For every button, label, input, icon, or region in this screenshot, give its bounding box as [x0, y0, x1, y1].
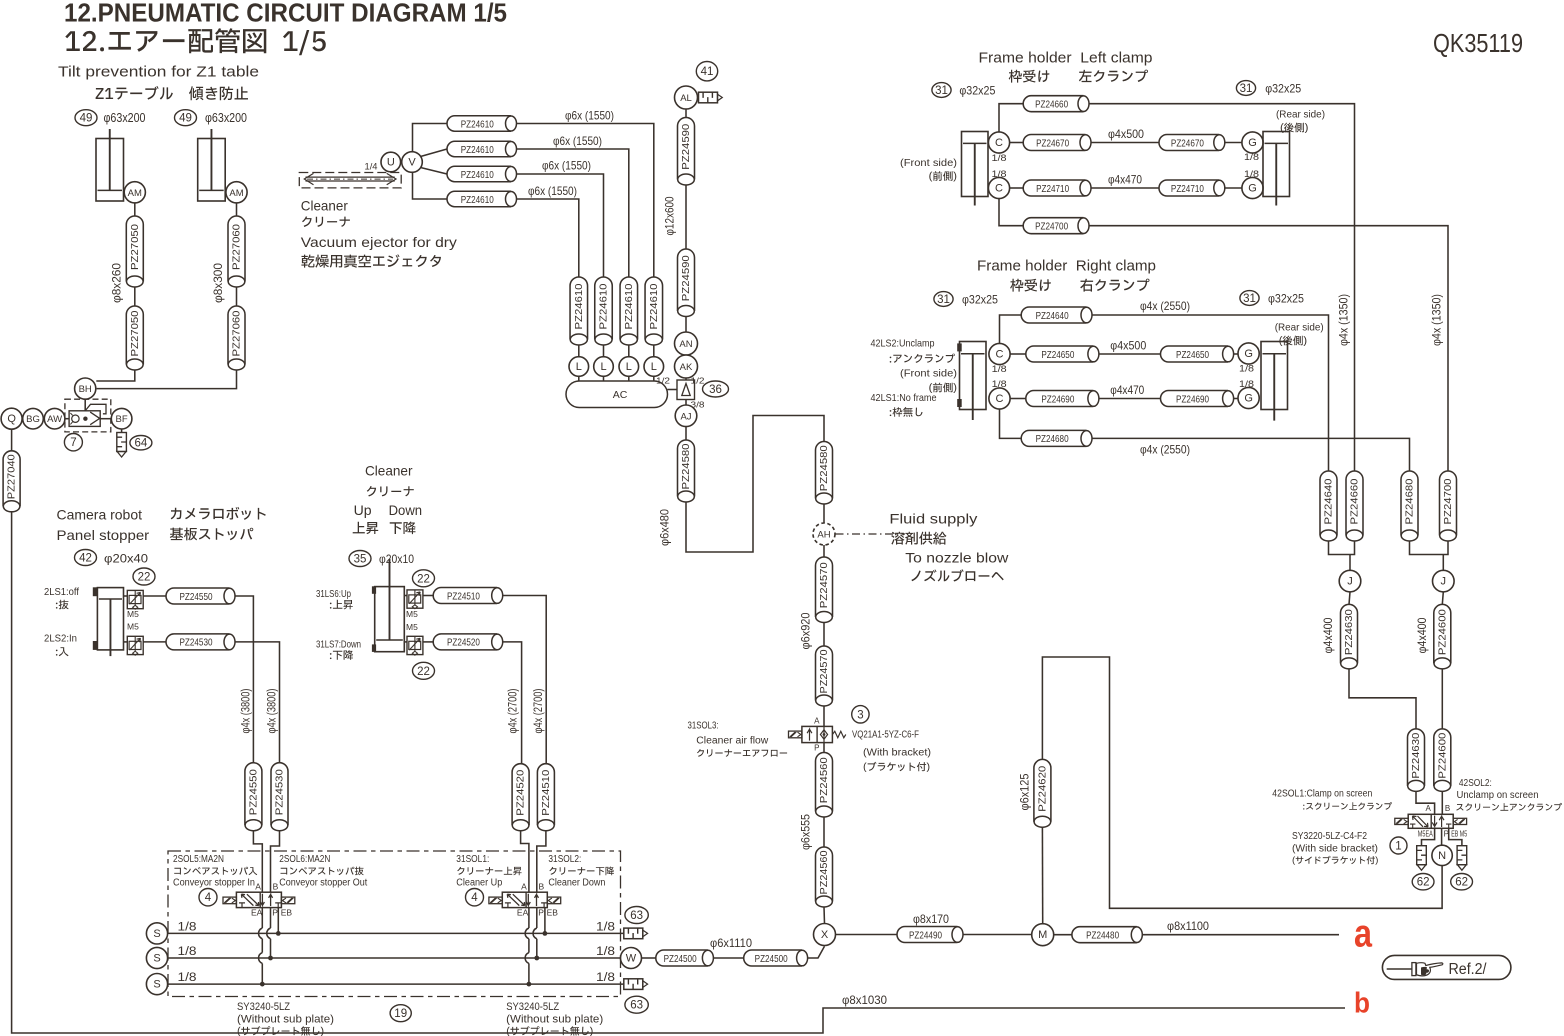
svg-text:PZ24610: PZ24610 [598, 283, 610, 329]
svg-text:AH: AH [817, 530, 830, 541]
svg-text:EA: EA [251, 908, 263, 918]
svg-text:31SOL3:: 31SOL3: [688, 721, 719, 732]
pipe PZ24710 second [1159, 180, 1225, 196]
balloon 3 [852, 706, 869, 723]
silencer 63 top [624, 928, 648, 939]
wire AM to PZ27050 [134, 203, 136, 216]
pipe PZ24610 h1 [447, 116, 517, 132]
pipe PZ24690 first [1026, 391, 1099, 407]
balloon 41 [696, 61, 717, 80]
wire J2 to PZ24600, dia 4x400 [1442, 592, 1443, 605]
svg-text:M5: M5 [406, 609, 418, 619]
wire PZ24600 down [1441, 669, 1443, 729]
svg-text:PZ24610: PZ24610 [461, 194, 494, 206]
svg-text:35: 35 [354, 554, 367, 566]
svg-text:1/8: 1/8 [178, 972, 197, 984]
node AN [675, 332, 698, 355]
pipe PZ24680 horizontal [1021, 430, 1092, 446]
pipe PZ24560 upper [816, 753, 833, 818]
svg-text:1/8: 1/8 [992, 379, 1007, 390]
node C1 left-clamp [988, 132, 1009, 153]
wire check valve to AJ [685, 400, 687, 406]
svg-text:64: 64 [135, 438, 148, 450]
pipe PZ24670 first [1023, 135, 1091, 151]
svg-text:22: 22 [138, 572, 151, 584]
svg-text:S: S [153, 928, 160, 940]
pipe PZ24630 upper [1341, 604, 1358, 669]
svg-text:4: 4 [205, 892, 212, 904]
wire V to PZ24610 no1 [413, 124, 448, 152]
svg-text:12.PNEUMATIC CIRCUIT DIAGRAM 1: 12.PNEUMATIC CIRCUIT DIAGRAM 1/5 [64, 0, 507, 28]
svg-text:4: 4 [471, 892, 478, 904]
wire AL to PZ24590 [685, 109, 687, 118]
svg-text:(Without sub plate): (Without sub plate) [237, 1013, 334, 1025]
svg-text:L: L [576, 361, 582, 373]
svg-text:U: U [387, 157, 395, 169]
node BF [111, 408, 132, 429]
svg-text:EB: EB [547, 908, 559, 918]
svg-text:63: 63 [630, 910, 643, 922]
svg-text:19: 19 [394, 1008, 407, 1020]
svg-text:G: G [1244, 393, 1253, 405]
flow control 22-1 [127, 590, 143, 609]
wire PZ24480 to a, dia 8x1100 [1142, 934, 1339, 936]
svg-text:PZ24650: PZ24650 [1041, 349, 1074, 361]
pipe PZ24560 lower [816, 847, 833, 907]
cylinder left-clamp rear [1263, 132, 1290, 206]
wire PZ24700 to right column [1089, 226, 1448, 471]
svg-text:φ6x480: φ6x480 [660, 509, 672, 546]
svg-text:1/8: 1/8 [1244, 169, 1259, 180]
balloon 22 cleaner lower [413, 662, 435, 679]
svg-text:1/8: 1/8 [596, 922, 615, 934]
cylinder right-clamp rear [1261, 342, 1288, 421]
node AH (dashed) [813, 523, 835, 545]
svg-text:φ8x1100: φ8x1100 [1167, 919, 1209, 933]
cylinder left-clamp front [962, 132, 989, 206]
svg-text:31LS7:Down: 31LS7:Down [316, 639, 361, 651]
svg-text:62: 62 [1417, 877, 1430, 889]
svg-text:Frame holder Right clamp: Frame holder Right clamp [977, 259, 1156, 275]
wire PZ24510 down, dia 4x2700 [503, 596, 547, 764]
svg-text:PZ27050: PZ27050 [129, 224, 141, 270]
node S1 [146, 923, 167, 944]
svg-text:36: 36 [709, 384, 722, 396]
svg-text:φ6x1110: φ6x1110 [710, 936, 752, 950]
wire PZ24620 to M [1041, 827, 1043, 924]
svg-text:φ4x (2700): φ4x (2700) [508, 688, 520, 733]
wire EA to silencer 62 [1422, 828, 1435, 845]
svg-text:Cleaner Up: Cleaner Up [456, 878, 502, 889]
svg-text:G: G [1248, 183, 1257, 195]
svg-text:φ8x260: φ8x260 [112, 263, 124, 303]
pipe PZ24610 h4 [447, 191, 517, 207]
node C1 right-clamp [989, 343, 1010, 364]
svg-text:(Front side): (Front side) [900, 368, 957, 380]
svg-text:49: 49 [80, 113, 93, 125]
node G1 right-clamp [1238, 343, 1259, 364]
cylinder cleaner [375, 559, 405, 652]
svg-text:C: C [995, 137, 1003, 149]
svg-text:φ63x200: φ63x200 [104, 111, 146, 125]
svg-text:42SOL2:: 42SOL2: [1459, 778, 1492, 789]
pipe PZ24610 v4 [645, 277, 663, 345]
svg-text:PZ24580: PZ24580 [818, 445, 830, 491]
svg-text:PZ27060: PZ27060 [231, 310, 243, 356]
valve1 EA drop to rail3 [261, 908, 263, 928]
svg-text:Q: Q [7, 413, 16, 425]
wire dia 4x470 left-clamp [1091, 187, 1159, 189]
valve 31SOL3 VQ21A1 [789, 726, 846, 742]
svg-text:1: 1 [1395, 841, 1401, 853]
svg-text:49: 49 [179, 113, 192, 125]
wire PZ24530 to valve B [271, 831, 280, 893]
svg-text:Camera robot: Camera robot [57, 507, 143, 523]
pipe PZ27060 lower [228, 306, 245, 370]
svg-text:W: W [626, 953, 637, 965]
svg-text:31: 31 [935, 85, 948, 97]
wire PZ27060 to node BH [97, 370, 237, 389]
balloon 7 [64, 434, 82, 451]
pipe PZ24570 upper [816, 557, 833, 623]
pipe PZ24580 left [678, 440, 695, 502]
wire PZ27050 to node BH [96, 370, 135, 381]
wire AM-B to PZ27060 [236, 203, 238, 216]
title-jp: 12. air piping diagram 1/5 [65, 28, 326, 55]
svg-text:φ4x (1350): φ4x (1350) [1432, 294, 1444, 346]
svg-text:V: V [408, 157, 416, 169]
wire X to PZ24490, dia 8x170 [836, 934, 898, 936]
svg-text:PZ24600: PZ24600 [1436, 732, 1448, 778]
balloon 62 left [1412, 874, 1434, 890]
node C2 right-clamp [989, 388, 1010, 409]
valve 31SOL1/31SOL2 (SY3240-5LZ) [489, 881, 561, 917]
svg-text:φ4x (1350): φ4x (1350) [1338, 294, 1350, 346]
svg-text:A: A [521, 881, 527, 891]
svg-text:PZ24510: PZ24510 [540, 770, 552, 816]
node N [1432, 845, 1452, 865]
svg-text:PZ27040: PZ27040 [6, 454, 18, 499]
node AM (cyl B port) [226, 182, 247, 203]
wire V to PZ24610 no3 [421, 168, 448, 175]
balloon 31 left-clamp front [932, 83, 951, 98]
node BG [23, 408, 44, 429]
svg-text:62: 62 [1455, 877, 1468, 889]
svg-text:φ6x555: φ6x555 [801, 814, 813, 850]
pipe PZ24610 h2 [447, 141, 517, 157]
pipe PZ24610 v2 [595, 277, 613, 345]
svg-text:1/8: 1/8 [992, 364, 1007, 375]
svg-text:Unclamp on screen: Unclamp on screen [1457, 790, 1539, 801]
cleaner dashed duct [299, 173, 401, 188]
filter-regulator unit 7 (dashed enclosure) [65, 399, 111, 432]
svg-text:C: C [996, 349, 1004, 361]
node Q [1, 408, 22, 429]
svg-text:PZ24490: PZ24490 [909, 929, 942, 941]
svg-text:2LS1:off: 2LS1:off [44, 586, 79, 598]
svg-text:PZ24680: PZ24680 [1404, 478, 1416, 524]
wire PZ24660 to right column [1089, 104, 1355, 471]
svg-text:PZ24660: PZ24660 [1035, 99, 1068, 111]
svg-text:EA: EA [517, 908, 529, 918]
svg-text:(Without sub plate): (Without sub plate) [506, 1013, 603, 1025]
pipe PZ24480 [1072, 927, 1142, 943]
svg-text:(With side bracket): (With side bracket) [1292, 844, 1378, 855]
wire P to N [1441, 828, 1443, 845]
pipe PZ24500 first [656, 950, 714, 966]
svg-text:φ4x470: φ4x470 [1110, 383, 1144, 397]
wire N down to supply loop [1042, 657, 1442, 908]
svg-text:PZ24510: PZ24510 [447, 590, 480, 602]
svg-text:A: A [255, 881, 261, 891]
wire PZ24580 to AH [823, 504, 825, 523]
supply rail 1 [168, 932, 624, 934]
pipe PZ24590 upper [678, 118, 695, 186]
svg-text:φ4x400: φ4x400 [1417, 618, 1429, 654]
wire regulator to BF [100, 418, 111, 420]
wire h2 to v3 [517, 149, 629, 277]
wire PZ24500 to X [808, 946, 825, 958]
node L4 [653, 345, 655, 357]
wire C1 to PZ24650 [1010, 353, 1026, 355]
node AL [675, 86, 698, 109]
svg-text:1/4: 1/4 [365, 162, 378, 173]
pipe PZ24550 vertical [245, 763, 262, 831]
svg-text:PZ24630: PZ24630 [1410, 732, 1422, 778]
svg-text:J: J [1441, 576, 1447, 588]
cylinder camera stopper [97, 588, 123, 657]
svg-text:N: N [1438, 850, 1446, 862]
svg-text:φ32x25: φ32x25 [959, 84, 995, 98]
svg-text:φ12x600: φ12x600 [665, 197, 677, 236]
wire C2 down to PZ24700 [999, 199, 1023, 226]
svg-text:1/8: 1/8 [178, 946, 197, 958]
svg-text:AJ: AJ [680, 411, 691, 422]
wire PZ24670 to G1 [1225, 142, 1242, 144]
relief bypass loop [85, 404, 106, 414]
regulator arrow [90, 412, 100, 425]
svg-text:A: A [1425, 804, 1431, 813]
wire Q down [11, 429, 13, 451]
balloon 31 right-clamp front [934, 292, 953, 307]
svg-text:PZ24610: PZ24610 [461, 144, 494, 156]
svg-text:PZ24690: PZ24690 [1041, 393, 1074, 405]
balloon 31 left-clamp rear [1236, 81, 1255, 96]
wire PZ24630 jog down [1349, 669, 1416, 729]
pipe PZ24700 vertical [1440, 471, 1457, 541]
balloon 31 right-clamp rear [1240, 291, 1259, 306]
wire dia 6x555 [823, 817, 825, 847]
wire PZ24490 to M [963, 934, 1032, 936]
svg-text:42SOL1:Clamp on screen: 42SOL1:Clamp on screen [1272, 789, 1372, 800]
wire M to PZ24480 [1054, 934, 1072, 936]
svg-text:42LS1:No frame: 42LS1:No frame [871, 392, 937, 404]
pipe PZ24490 [897, 927, 963, 943]
svg-text:M5EA: M5EA [1418, 830, 1433, 839]
balloon 35 [349, 551, 371, 567]
svg-text:(Front side): (Front side) [900, 157, 957, 169]
wire dia 4x500 right-clamp [1099, 353, 1161, 355]
supply rail 3 [168, 983, 624, 985]
wire C2 to PZ24710 [1010, 187, 1024, 189]
svg-text:31: 31 [1243, 293, 1256, 305]
svg-text:EB: EB [281, 908, 293, 918]
svg-text:PZ24480: PZ24480 [1086, 930, 1119, 942]
wire dia 4x470 right-clamp [1099, 398, 1161, 400]
wire C2 to PZ24690 [1010, 398, 1026, 400]
svg-text:PZ24650: PZ24650 [1176, 349, 1209, 361]
valve1 EB drop to rail1 [277, 908, 279, 934]
svg-text:φ4x (3800): φ4x (3800) [267, 688, 279, 733]
node BH [75, 378, 96, 399]
svg-text:C: C [995, 183, 1003, 195]
silencer 41 [699, 92, 723, 103]
balloon 4 valve2 [466, 889, 484, 906]
svg-text:41: 41 [701, 66, 714, 78]
svg-text:Up: Up [354, 502, 372, 518]
svg-text:SY3220-5LZ-C4-F2: SY3220-5LZ-C4-F2 [1292, 831, 1367, 842]
svg-text:Cleaner air flow: Cleaner air flow [696, 736, 769, 747]
node M [1032, 924, 1054, 946]
pipe PZ24660 vertical [1346, 471, 1363, 541]
limit switch 2LS1 [93, 587, 98, 596]
svg-text:PZ24690: PZ24690 [1176, 393, 1209, 405]
duct arrows [306, 177, 395, 181]
valve2 EB drop to rail1 [544, 908, 546, 934]
balloon 22 camera [133, 568, 155, 585]
wire 31SOL3 to PZ24560 [823, 743, 825, 753]
svg-text:PZ24610: PZ24610 [623, 283, 635, 329]
valve2 P drop to rail2 [536, 908, 538, 928]
balloon 19 [390, 1005, 411, 1022]
svg-text:PZ24560: PZ24560 [818, 757, 830, 803]
svg-text:PZ24520: PZ24520 [515, 770, 527, 816]
wire AK to check valve [685, 378, 687, 380]
wire h1 to v4 [517, 124, 654, 278]
node S2 [146, 947, 167, 968]
svg-text:SY3240-5LZ: SY3240-5LZ [506, 1001, 559, 1013]
svg-text:Tilt prevention for Z1 table: Tilt prevention for Z1 table [58, 64, 259, 81]
wire W to PZ24500 [642, 957, 656, 959]
pipe PZ24640 vertical [1320, 471, 1337, 541]
svg-text:φ6x920: φ6x920 [801, 613, 813, 650]
svg-text:φ4x (2550): φ4x (2550) [1140, 299, 1190, 313]
svg-text:X: X [821, 929, 829, 941]
reference bubble Ref.2/ [1382, 955, 1511, 979]
pipe PZ27050 upper [126, 216, 143, 287]
svg-text:31SOL1:: 31SOL1: [456, 854, 489, 865]
wire EB to silencer 62 [1449, 828, 1462, 845]
limit switch 42LS1 [957, 399, 962, 407]
manifold enclosure 19 (dashed) [168, 851, 621, 997]
wire PZ24520 to valve2 A [521, 831, 529, 893]
wire dia 12x600 [685, 185, 687, 249]
svg-text:PZ24520: PZ24520 [447, 637, 480, 649]
svg-text:1/8: 1/8 [596, 946, 615, 958]
pipe PZ24710 first [1023, 180, 1091, 196]
supply rail 2 [168, 957, 621, 959]
svg-text:PZ24610: PZ24610 [648, 283, 660, 329]
svg-text:φ4x (3800): φ4x (3800) [241, 688, 253, 733]
silencer 64 [117, 433, 127, 458]
wire PZ24530 down, dia 4x3800 [235, 642, 280, 763]
pipe PZ27040 [3, 451, 20, 512]
pipe PZ24510 vertical [537, 764, 554, 831]
node L3 [628, 345, 630, 357]
main supply wire dia 8x1030 along bottom to b [12, 512, 1345, 1033]
node AK [675, 355, 698, 378]
limit switch 42LS2 [957, 343, 962, 351]
svg-text:AM: AM [229, 188, 243, 199]
svg-text:G: G [1244, 348, 1253, 360]
node C2 left-clamp [988, 177, 1009, 198]
wire PZ24690 to G2 [1234, 398, 1238, 400]
balloon 63 bottom [625, 996, 648, 1013]
svg-text:PZ24570: PZ24570 [818, 649, 830, 693]
svg-text:φ8x1030: φ8x1030 [842, 993, 887, 1007]
filter ball symbol [70, 413, 79, 424]
svg-text:PZ24500: PZ24500 [755, 953, 788, 965]
svg-text:PZ24670: PZ24670 [1171, 137, 1204, 149]
svg-text:P: P [272, 908, 278, 918]
svg-text:1/8: 1/8 [992, 169, 1007, 180]
wire between PZ27060 pipes, dia 8x300 [236, 287, 238, 306]
svg-text:φ20x40: φ20x40 [104, 552, 148, 566]
wire PZ24600 to 42SOL B [1441, 791, 1443, 814]
check valve 36 [677, 380, 695, 400]
svg-text:63: 63 [630, 1000, 643, 1012]
pipe PZ24590 lower [678, 249, 695, 317]
valve2 EA drop to rail3 [528, 908, 530, 928]
pipe PZ24510 horizontal [433, 588, 503, 604]
svg-text:Cleaner Down: Cleaner Down [548, 878, 605, 889]
svg-text:1/2: 1/2 [656, 376, 670, 386]
svg-text:31: 31 [1240, 83, 1253, 95]
wire V to PZ24610 no2 [421, 149, 448, 157]
svg-text:M5: M5 [127, 609, 139, 619]
regulator body [69, 411, 100, 427]
svg-text:φ6x125: φ6x125 [1020, 774, 1032, 811]
wire PZ24560 to X [823, 907, 826, 924]
wire C1 up to PZ24640 [1000, 315, 1022, 343]
svg-text:3: 3 [857, 709, 863, 721]
node AJ [675, 405, 697, 427]
svg-text:a: a [1354, 913, 1372, 956]
svg-text:22: 22 [417, 666, 430, 678]
balloon 62 right [1451, 874, 1473, 890]
node J1 [1339, 570, 1361, 592]
balloon 63 top [625, 907, 648, 924]
svg-text:PZ24670: PZ24670 [1036, 137, 1069, 149]
valve1 P drop to rail2 [270, 908, 272, 928]
svg-text:PZ24660: PZ24660 [1349, 478, 1361, 524]
svg-text:AK: AK [680, 362, 693, 373]
svg-text:PZ24700: PZ24700 [1035, 221, 1068, 233]
svg-text:G: G [1248, 137, 1257, 149]
svg-text:AL: AL [680, 93, 692, 104]
silencer 62 right [1457, 846, 1467, 871]
wire AJ to PZ24580 [685, 427, 687, 440]
pipe PZ24670 second [1159, 135, 1225, 151]
wire AW to regulator [64, 418, 69, 420]
svg-text:PZ24600: PZ24600 [1436, 609, 1448, 655]
svg-text:P: P [538, 908, 544, 918]
valve 2SOL5/2SOL6 MA2N (SY3240-5LZ) [223, 881, 295, 917]
silencer 62 left [1417, 846, 1427, 871]
svg-text:φ4x470: φ4x470 [1108, 173, 1142, 187]
pipe PZ24530 horizontal [166, 634, 235, 650]
node G2 right-clamp [1238, 387, 1259, 408]
